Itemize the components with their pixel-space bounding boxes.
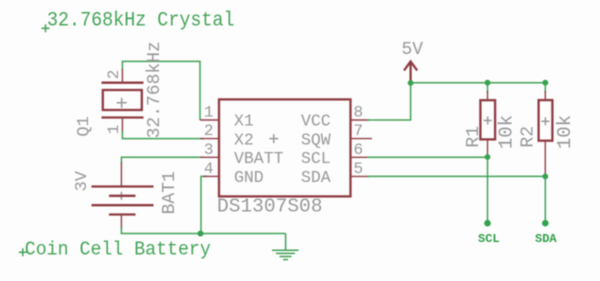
SDA net end dot bbox=[542, 220, 549, 227]
wire: battery - to ground rail bbox=[121, 227, 285, 234]
resistor R1 body bbox=[480, 100, 495, 139]
svg-text:R1: R1 bbox=[464, 126, 484, 148]
svg-text:32.768kHz: 32.768kHz bbox=[145, 41, 165, 138]
crystal origin cross bbox=[117, 98, 127, 108]
svg-text:SCL: SCL bbox=[301, 149, 331, 168]
IC pin 4 stub bbox=[203, 175, 219, 177]
op IC U1 DS1307 body bbox=[219, 99, 351, 196]
junction dot at GND net bbox=[198, 231, 204, 237]
svg-text:Q1: Q1 bbox=[75, 116, 94, 136]
wire: IC SDA pin to R2 bottom bbox=[367, 175, 545, 177]
battery BAT1 plate 1 (long) bbox=[92, 185, 154, 187]
junction dot R2 top bbox=[542, 80, 548, 86]
resistor R1 pins bbox=[487, 83, 489, 93]
crystal Q1 bottom plate bbox=[102, 116, 144, 118]
svg-text:4: 4 bbox=[204, 160, 214, 178]
junction dot at 5V bbox=[408, 80, 414, 86]
wire: GND junction up to IC GND pin bbox=[201, 176, 207, 233]
IC pin 1 stub bbox=[200, 119, 219, 121]
svg-text:7: 7 bbox=[354, 122, 364, 140]
svg-text:GND: GND bbox=[234, 168, 264, 187]
IC pin 3 stub bbox=[200, 156, 219, 158]
wire: SCL down to net stub bbox=[487, 157, 489, 221]
wire: IC SCL pin to R1 bottom bbox=[367, 156, 488, 158]
R1 origin cross bbox=[484, 117, 492, 125]
IC pin 8 stub bbox=[351, 119, 370, 121]
svg-text:DS1307S08: DS1307S08 bbox=[217, 196, 323, 218]
junction dot SDA bbox=[542, 174, 548, 180]
ground symbol bbox=[272, 234, 299, 260]
svg-text:SDA: SDA bbox=[535, 232, 557, 246]
resistor R2 body bbox=[539, 100, 553, 141]
svg-text:1: 1 bbox=[105, 125, 123, 135]
crystal Q1 top plate bbox=[102, 82, 144, 84]
battery BAT1 plate 4 (short) bbox=[109, 213, 136, 215]
svg-text:6: 6 bbox=[354, 141, 364, 159]
IC pin 7 stub (SQW unconnected) bbox=[351, 138, 373, 140]
junction dot R1 top bbox=[485, 80, 491, 86]
svg-text:SCL: SCL bbox=[478, 232, 500, 246]
wire: crystal pin1 to IC X2 bbox=[122, 131, 204, 139]
battery BAT1 plate 2 (short) bbox=[109, 195, 136, 197]
caption text origin cross bbox=[19, 248, 27, 256]
svg-text:1: 1 bbox=[204, 104, 214, 122]
svg-text:2: 2 bbox=[105, 70, 123, 80]
IC pin 5 stub bbox=[351, 175, 370, 177]
resistor R2 pins bbox=[544, 83, 546, 93]
svg-text:R2: R2 bbox=[518, 126, 538, 148]
battery BAT1 pin + (vertical) bbox=[120, 162, 122, 187]
svg-text:8: 8 bbox=[354, 104, 364, 122]
battery BAT1 plate 3 (long) bbox=[92, 204, 154, 206]
svg-text:X1: X1 bbox=[234, 112, 254, 131]
svg-text:32.768kHz Crystal: 32.768kHz Crystal bbox=[47, 10, 235, 33]
svg-text:X2: X2 bbox=[234, 130, 254, 149]
crystal Q1 pin 2 (vertical red pin) bbox=[121, 69, 123, 83]
svg-text:2: 2 bbox=[204, 122, 214, 140]
svg-text:5: 5 bbox=[354, 160, 364, 178]
SCL net end dot bbox=[484, 220, 491, 227]
svg-text:VCC: VCC bbox=[301, 112, 331, 131]
5V supply arrow bbox=[404, 62, 417, 84]
crystal Q1 pin 1 (vertical red pin) bbox=[121, 118, 123, 134]
svg-text:SDA: SDA bbox=[301, 168, 331, 187]
svg-text:BAT1: BAT1 bbox=[160, 171, 180, 214]
R2 origin cross bbox=[541, 117, 549, 125]
svg-text:VBATT: VBATT bbox=[234, 149, 284, 168]
svg-text:5V: 5V bbox=[402, 40, 424, 60]
wire: SDA down to net stub bbox=[544, 176, 546, 221]
svg-text:Coin Cell Battery: Coin Cell Battery bbox=[25, 239, 211, 261]
crystal Q1 body rectangle bbox=[103, 90, 142, 110]
svg-text:10k: 10k bbox=[554, 115, 576, 149]
svg-text:3V: 3V bbox=[73, 170, 92, 191]
IC pin 2 stub bbox=[200, 138, 219, 140]
wire: VCC pin to 5V bbox=[367, 83, 411, 120]
IC origin cross bbox=[269, 134, 278, 143]
svg-text:10k: 10k bbox=[496, 115, 518, 149]
battery origin cross bbox=[117, 192, 125, 200]
title text origin cross bbox=[42, 24, 50, 32]
junction dot SCL bbox=[485, 154, 491, 160]
wire: battery + to IC VBATT bbox=[121, 157, 204, 163]
wire: crystal pin2 to IC X1 (top route) bbox=[122, 61, 200, 120]
wire: 5V rail to resistors bbox=[411, 82, 546, 84]
battery BAT1 pin - (vertical) bbox=[120, 215, 122, 230]
svg-text:SQW: SQW bbox=[301, 130, 331, 149]
IC pin 6 stub bbox=[351, 156, 370, 158]
svg-text:3: 3 bbox=[204, 141, 214, 159]
